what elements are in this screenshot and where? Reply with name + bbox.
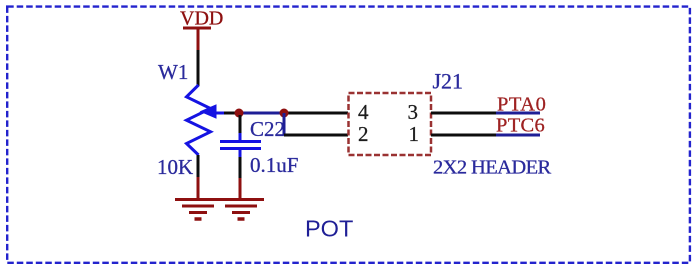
svg-text:0.1uF: 0.1uF xyxy=(250,153,298,177)
ground under W1 xyxy=(175,177,221,219)
capacitor C22 xyxy=(220,117,298,177)
wire wiper to node A xyxy=(224,112,237,115)
svg-text:10K: 10K xyxy=(157,155,193,179)
svg-text:PTC6: PTC6 xyxy=(496,115,545,137)
junction node A xyxy=(235,109,244,118)
wire W1 bottom to ground xyxy=(197,155,200,178)
svg-text:J21: J21 xyxy=(433,69,464,94)
svg-text:POT: POT xyxy=(305,216,353,242)
wire node B down xyxy=(283,113,286,135)
wire node B to J21 pin 4 xyxy=(284,112,348,115)
wire J21 pin 1 out xyxy=(431,134,496,137)
junction node B xyxy=(280,109,289,118)
connector J21 body xyxy=(349,69,464,156)
svg-text:3: 3 xyxy=(408,100,419,124)
net stub PTC6 (blue) xyxy=(496,134,540,137)
wire node A to node B (blue) xyxy=(239,112,284,115)
wire node A down to C22 xyxy=(239,115,242,134)
power symbol VDD xyxy=(180,8,223,51)
wire VDD to W1 xyxy=(197,50,200,86)
svg-text:W1: W1 xyxy=(158,60,188,84)
svg-text:2: 2 xyxy=(358,122,369,146)
wiper arrow of W1 xyxy=(200,104,225,118)
wire J21 pin 3 out xyxy=(431,112,496,115)
wire C22 to ground xyxy=(239,157,242,178)
svg-text:VDD: VDD xyxy=(180,8,223,30)
wire to J21 pin 2 xyxy=(284,134,348,137)
svg-text:C22: C22 xyxy=(250,117,285,141)
net stub PTA0 (blue) xyxy=(496,112,540,115)
svg-text:4: 4 xyxy=(358,100,369,124)
ground under C22 xyxy=(218,178,264,219)
svg-text:1: 1 xyxy=(409,122,420,146)
resistor W1 (potentiometer) xyxy=(157,60,211,179)
svg-text:PTA0: PTA0 xyxy=(497,94,546,116)
svg-text:2X2 HEADER: 2X2 HEADER xyxy=(433,157,551,179)
